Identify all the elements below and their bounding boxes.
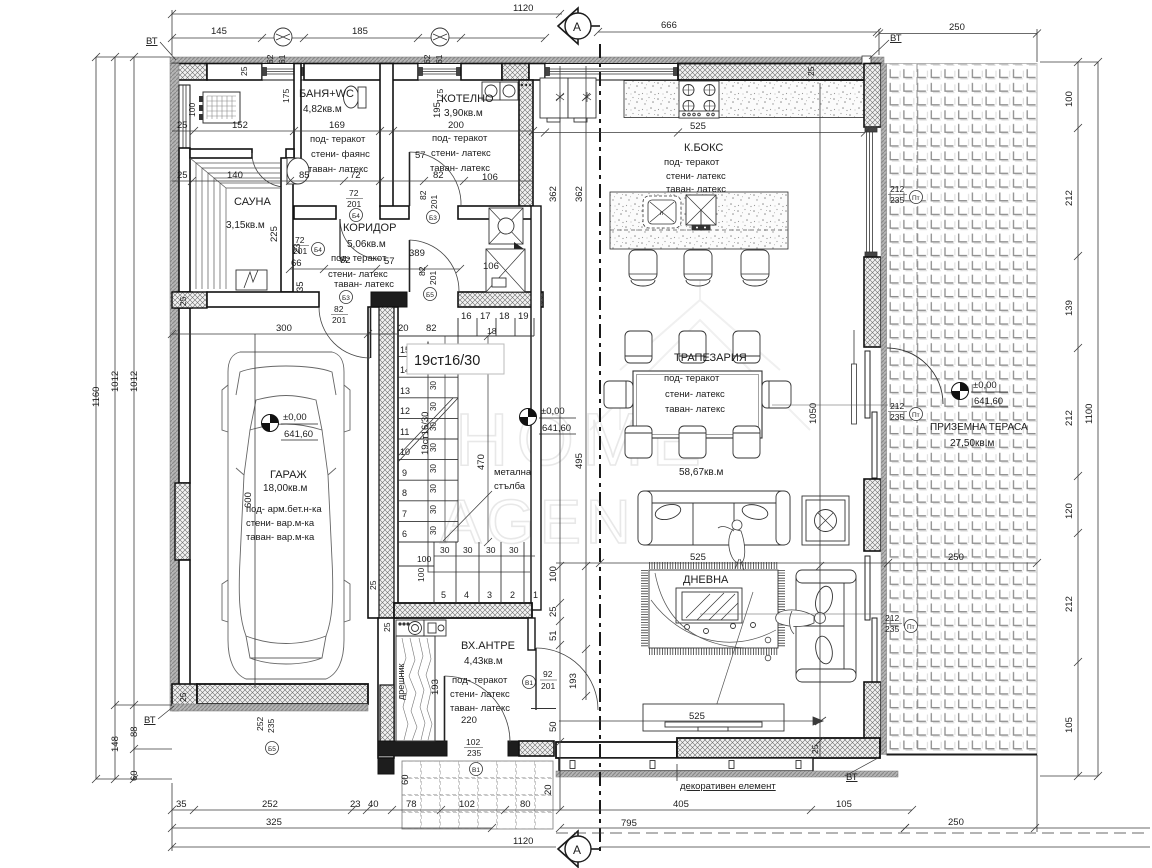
svg-text:дрешник: дрешник	[396, 664, 406, 700]
svg-text:82: 82	[418, 190, 428, 200]
entrance bottom-left wall	[378, 741, 447, 756]
svg-text:470: 470	[476, 454, 487, 470]
stair 30 labels	[429, 360, 438, 535]
garage right wall	[368, 307, 398, 618]
svg-text:30: 30	[429, 464, 438, 473]
svg-text:под- теракот: под- теракот	[664, 157, 720, 168]
svg-text:стени- латекс: стени- латекс	[666, 171, 726, 182]
section marker A top	[558, 8, 600, 44]
svg-text:12: 12	[400, 406, 410, 416]
svg-text:6: 6	[402, 529, 407, 539]
stair left wall hatch	[379, 307, 394, 618]
svg-text:5: 5	[441, 590, 446, 600]
svg-text:±0,00: ±0,00	[283, 412, 307, 423]
svg-text:148: 148	[110, 736, 121, 752]
svg-text:таван- латекс: таван- латекс	[450, 703, 510, 714]
svg-text:100: 100	[1064, 91, 1075, 107]
svg-text:225: 225	[269, 226, 280, 242]
sauna bottom wall	[172, 292, 207, 308]
svg-text:8: 8	[402, 488, 407, 498]
stair break diagonal	[398, 398, 458, 462]
svg-text:100: 100	[417, 554, 431, 564]
svg-text:235: 235	[266, 719, 276, 733]
stair upper flight 16-19	[458, 318, 534, 336]
svg-text:1050: 1050	[808, 403, 819, 424]
boiler right wall	[519, 80, 533, 212]
svg-text:2: 2	[510, 590, 515, 600]
interior vertical dims	[559, 66, 561, 810]
svg-text:25: 25	[368, 580, 378, 590]
svg-text:20: 20	[543, 784, 554, 795]
svg-text:220: 220	[461, 715, 477, 726]
svg-text:1120: 1120	[513, 3, 533, 14]
level mark garage	[262, 412, 319, 440]
rug decorative arcs	[655, 573, 760, 648]
svg-text:252: 252	[255, 717, 265, 731]
top dim row 1	[172, 13, 562, 15]
left wall window	[179, 85, 190, 148]
svg-text:A: A	[573, 843, 581, 857]
svg-text:82: 82	[334, 304, 344, 314]
svg-text:стени- фаянс: стени- фаянс	[311, 149, 370, 160]
svg-text:9: 9	[402, 468, 407, 478]
svg-text:50: 50	[548, 721, 559, 732]
svg-text:100: 100	[548, 566, 559, 582]
right dim col	[1077, 62, 1079, 776]
svg-text:72: 72	[349, 188, 359, 198]
svg-text:30: 30	[440, 545, 450, 555]
svg-text:62: 62	[422, 54, 432, 64]
dining chairs top row	[625, 331, 760, 363]
svg-text:201: 201	[293, 246, 307, 256]
svg-text:1100: 1100	[1084, 404, 1095, 424]
section marker A bottom	[558, 831, 600, 867]
svg-text:250: 250	[948, 552, 964, 563]
svg-text:метална: метална	[494, 467, 532, 478]
boiler door leaf and arc	[409, 152, 411, 206]
floor lamps	[765, 637, 771, 643]
svg-text:175: 175	[435, 89, 445, 103]
svg-text:3,90кв.м: 3,90кв.м	[444, 108, 483, 119]
svg-text:КОТЕЛНО: КОТЕЛНО	[441, 93, 494, 105]
top wall segment	[207, 64, 262, 81]
terrace door 1 sliding leaves	[865, 351, 877, 478]
svg-text:таван- латекс: таван- латекс	[666, 184, 726, 195]
svg-text:61: 61	[434, 54, 444, 64]
svg-text:60: 60	[400, 774, 411, 785]
svg-text:1012: 1012	[129, 371, 140, 392]
svg-text:17: 17	[480, 311, 491, 322]
wall bath/boiler	[380, 64, 393, 207]
dining chairs bottom row	[625, 426, 760, 458]
stair treads main flight	[398, 318, 458, 542]
svg-text:A: A	[573, 20, 581, 34]
svg-text:201: 201	[428, 271, 438, 285]
svg-text:72: 72	[295, 235, 305, 245]
svg-text:30: 30	[429, 381, 438, 390]
svg-text:105: 105	[836, 799, 852, 810]
svg-text:ВТ: ВТ	[846, 772, 858, 783]
bath bottom wall	[294, 206, 336, 219]
svg-text:В1: В1	[472, 767, 480, 774]
svg-text:100: 100	[416, 568, 426, 582]
svg-text:30: 30	[429, 505, 438, 514]
svg-text:102: 102	[459, 799, 475, 810]
stair step numbers 15-6	[400, 345, 410, 539]
dashed property line bottom	[556, 832, 1150, 834]
svg-text:таван- латекс: таван- латекс	[334, 279, 394, 290]
window W2 boiler	[418, 64, 461, 81]
svg-text:35: 35	[295, 281, 306, 292]
svg-text:1120: 1120	[513, 836, 533, 847]
svg-text:641,60: 641,60	[974, 396, 1003, 407]
top wall pier	[502, 64, 529, 81]
svg-text:19ст16/30: 19ст16/30	[420, 412, 431, 455]
svg-text:Пт: Пт	[912, 412, 920, 419]
island sink	[686, 195, 716, 230]
top right dim 250	[879, 33, 1037, 35]
svg-text:666: 666	[661, 20, 677, 31]
svg-text:5,06кв.м: 5,06кв.м	[347, 239, 386, 250]
svg-text:175: 175	[281, 89, 291, 103]
svg-text:13: 13	[400, 386, 410, 396]
sauna door arc	[252, 153, 286, 187]
tall cabinets	[540, 78, 596, 122]
svg-text:85: 85	[299, 170, 310, 181]
top dim row 2	[172, 37, 545, 39]
dining table	[633, 371, 762, 438]
svg-text:БАНЯ+WC: БАНЯ+WC	[299, 88, 354, 100]
svg-text:4: 4	[464, 590, 469, 600]
svg-text:18: 18	[487, 326, 497, 336]
left wall pier garage	[175, 483, 190, 560]
svg-text:таван- вар.м-ка: таван- вар.м-ка	[246, 532, 315, 543]
svg-text:300: 300	[276, 323, 292, 334]
svg-text:525: 525	[689, 711, 705, 722]
svg-text:Б5: Б5	[268, 746, 276, 753]
svg-text:201: 201	[347, 199, 361, 209]
svg-text:под- теракот: под- теракот	[664, 373, 720, 384]
svg-text:под- теракот: под- теракот	[310, 134, 366, 145]
ВТ marker box top right	[862, 56, 871, 64]
svg-text:Б4: Б4	[352, 213, 360, 220]
svg-text:57: 57	[415, 150, 426, 161]
svg-text:25: 25	[806, 66, 816, 76]
svg-text:82: 82	[417, 266, 427, 276]
right wall window	[865, 127, 877, 257]
svg-text:стени- вар.м-ка: стени- вар.м-ка	[246, 518, 315, 529]
svg-text:405: 405	[673, 799, 689, 810]
axis bubbles top	[274, 28, 292, 46]
kitchen island stipple	[610, 192, 788, 249]
svg-text:18,00кв.м: 18,00кв.м	[263, 483, 307, 494]
terrace tiles	[887, 64, 1038, 755]
sofa 2 vertical	[796, 570, 856, 682]
svg-text:n: n	[660, 211, 663, 217]
bar stools	[629, 250, 769, 286]
svg-text:389: 389	[409, 248, 425, 259]
terrace door 1 swing arc	[887, 348, 943, 404]
svg-text:362: 362	[574, 186, 585, 202]
living bottom wall left part	[556, 742, 677, 758]
top wall corner pier	[172, 64, 207, 81]
towel radiator	[199, 96, 203, 102]
wardrobe	[396, 636, 435, 741]
svg-text:525: 525	[690, 552, 706, 563]
bottom insulation strip	[556, 771, 898, 777]
svg-text:4,82кв.м: 4,82кв.м	[303, 104, 342, 115]
svg-text:САУНА: САУНА	[234, 196, 271, 208]
svg-text:120: 120	[1064, 503, 1075, 519]
svg-text:193: 193	[568, 673, 579, 689]
svg-text:19: 19	[518, 311, 529, 322]
svg-text:235: 235	[890, 412, 904, 422]
svg-text:ВТ: ВТ	[144, 715, 156, 726]
svg-text:106: 106	[482, 172, 498, 183]
stair lower flight 1-5	[398, 542, 524, 603]
left wall segment bath-sauna	[179, 148, 190, 292]
svg-text:ВТ: ВТ	[146, 36, 158, 47]
svg-text:58,67кв.м: 58,67кв.м	[679, 467, 723, 478]
svg-text:Пт: Пт	[912, 195, 920, 202]
top wall segment	[461, 64, 502, 81]
svg-text:25: 25	[177, 170, 188, 181]
rug	[649, 570, 778, 648]
right wall pier 2	[864, 257, 881, 347]
sauna heater	[236, 270, 267, 290]
svg-text:201: 201	[541, 681, 555, 691]
svg-text:235: 235	[890, 195, 904, 205]
svg-text:25: 25	[239, 66, 249, 76]
svg-text:105: 105	[1064, 717, 1075, 733]
svg-text:72: 72	[350, 170, 361, 181]
rug fringes	[649, 566, 778, 652]
label 19st16/30 box	[407, 344, 504, 374]
svg-text:88: 88	[129, 726, 140, 737]
svg-text:25: 25	[548, 606, 559, 617]
svg-text:11: 11	[400, 427, 409, 437]
svg-text:Пт: Пт	[907, 624, 915, 631]
svg-text:140: 140	[227, 170, 243, 181]
right wall pier bottom	[864, 682, 881, 752]
stair dims lower	[434, 555, 535, 557]
stair dim line 470	[445, 332, 492, 546]
svg-text:212: 212	[890, 184, 904, 194]
svg-text:под- теракот: под- теракот	[432, 133, 488, 144]
svg-text:20: 20	[398, 323, 409, 334]
svg-text:4,43кв.м: 4,43кв.м	[464, 656, 503, 667]
svg-text:±0,00: ±0,00	[541, 406, 565, 417]
svg-text:66: 66	[291, 258, 302, 269]
svg-text:252: 252	[262, 799, 278, 810]
svg-text:ВТ: ВТ	[890, 33, 902, 44]
svg-text:40: 40	[368, 799, 379, 810]
svg-text:78: 78	[406, 799, 417, 810]
svg-text:200: 200	[448, 120, 464, 131]
top wall insulation strip	[170, 57, 884, 64]
corridor small dim row	[290, 268, 460, 270]
entrance porch corner block	[378, 756, 394, 774]
level mark terrace	[952, 380, 1009, 407]
svg-text:100: 100	[187, 103, 197, 117]
entrance right wall	[528, 618, 535, 650]
svg-text:25: 25	[177, 120, 188, 131]
svg-text:30: 30	[429, 484, 438, 493]
svg-text:201: 201	[332, 315, 346, 325]
entrance bottom-right block	[508, 741, 519, 756]
svg-text:212: 212	[885, 613, 899, 623]
svg-text:525: 525	[690, 121, 706, 132]
svg-text:62: 62	[265, 54, 275, 64]
svg-text:Б4: Б4	[314, 247, 322, 254]
svg-text:КОРИДОР: КОРИДОР	[343, 222, 396, 234]
svg-text:Б3: Б3	[429, 215, 437, 222]
svg-text:195: 195	[432, 102, 443, 118]
svg-text:495: 495	[574, 453, 585, 469]
door labels with circles	[255, 184, 923, 776]
svg-text:ГАРАЖ: ГАРАЖ	[270, 469, 307, 481]
svg-text:Б5: Б5	[426, 292, 434, 299]
svg-text:3: 3	[487, 590, 492, 600]
svg-text:795: 795	[621, 818, 637, 829]
svg-text:212: 212	[1064, 596, 1075, 612]
entrance left wall	[378, 618, 394, 758]
TV cabinet	[643, 704, 784, 731]
svg-text:212: 212	[1064, 190, 1075, 206]
svg-text:под- теракот: под- теракот	[452, 675, 508, 686]
svg-text:212: 212	[1064, 410, 1075, 426]
svg-text:30: 30	[463, 545, 473, 555]
bath door arc	[340, 219, 380, 259]
dining side chairs	[604, 381, 791, 408]
svg-text:таван- латекс: таван- латекс	[665, 404, 725, 415]
right wall pier 3	[864, 479, 881, 551]
svg-text:57: 57	[384, 256, 395, 267]
svg-text:25: 25	[810, 744, 820, 754]
right wall pier top	[864, 64, 881, 128]
garage door leaf and arc	[370, 307, 372, 358]
radiator living wall	[852, 364, 857, 424]
entrance door leaf and arc	[444, 676, 446, 742]
stair bottom wall	[394, 603, 532, 618]
svg-text:30: 30	[429, 402, 438, 411]
svg-text:61: 61	[277, 54, 287, 64]
toilet	[344, 86, 367, 108]
wall bath/shower	[294, 64, 301, 161]
person on sofa 1	[718, 520, 745, 570]
svg-text:под- арм.бет.н-ка: под- арм.бет.н-ка	[246, 504, 322, 515]
svg-text:169: 169	[329, 120, 345, 131]
svg-text:30: 30	[429, 526, 438, 535]
svg-text:декоративен елемент: декоративен елемент	[680, 781, 776, 792]
watermark agency logo	[440, 280, 810, 557]
svg-text:25: 25	[178, 692, 188, 702]
svg-text:185: 185	[352, 26, 368, 37]
kitchen window W3	[545, 64, 678, 81]
interior horizontal dims	[172, 130, 533, 132]
top wall segment	[304, 64, 418, 81]
person on sofa 2	[776, 610, 826, 634]
svg-text:82: 82	[433, 170, 444, 181]
coffee table	[676, 588, 756, 634]
svg-text:7: 7	[402, 509, 407, 519]
svg-text:25: 25	[382, 622, 392, 632]
left wall pier bottom	[172, 684, 197, 705]
shower tray	[203, 92, 240, 123]
svg-text:стени- латекс: стени- латекс	[431, 148, 491, 159]
svg-text:ПРИЗЕМНА ТЕРАСА: ПРИЗЕМНА ТЕРАСА	[930, 422, 1028, 433]
svg-text:16: 16	[461, 311, 472, 322]
right wall outer gray strip	[881, 64, 887, 755]
stove	[679, 81, 719, 118]
porch tiles entrance	[402, 761, 553, 829]
stair walk line with arrow	[424, 342, 530, 572]
left wall insulation strip	[170, 64, 179, 712]
svg-text:ТРАПЕЗАРИЯ: ТРАПЕЗАРИЯ	[674, 352, 747, 364]
left wall pier sauna	[175, 292, 192, 308]
svg-text:193: 193	[430, 679, 441, 695]
svg-text:Б3: Б3	[342, 295, 350, 302]
level mark stairs	[520, 406, 577, 434]
svg-text:641,60: 641,60	[542, 423, 571, 434]
svg-text:106: 106	[483, 261, 499, 272]
svg-text:стени- латекс: стени- латекс	[665, 389, 725, 400]
svg-text:92: 92	[543, 669, 553, 679]
kitchen counter stipple	[624, 81, 865, 118]
decorative band	[559, 758, 813, 771]
svg-text:362: 362	[548, 186, 559, 202]
svg-text:30: 30	[509, 545, 519, 555]
svg-text:82: 82	[340, 255, 351, 266]
svg-text:ДНЕВНА: ДНЕВНА	[683, 574, 729, 586]
washbasin	[287, 158, 309, 184]
svg-text:В1: В1	[525, 680, 533, 687]
svg-text:±0,00: ±0,00	[973, 380, 997, 391]
svg-text:1160: 1160	[91, 387, 102, 407]
svg-text:82: 82	[426, 323, 437, 334]
terrace door 2 sliding leaves	[865, 556, 877, 682]
sofa 1	[638, 491, 790, 545]
svg-text:641,60: 641,60	[284, 429, 313, 440]
svg-text:30: 30	[486, 545, 496, 555]
svg-text:51: 51	[548, 630, 559, 641]
svg-text:25: 25	[178, 296, 188, 306]
svg-text:1: 1	[533, 590, 538, 600]
side table square	[802, 496, 849, 545]
left wall segment garage lower	[179, 560, 190, 686]
svg-text:18: 18	[499, 311, 510, 322]
svg-text:250: 250	[948, 817, 964, 828]
living bottom wall hatched	[677, 738, 880, 758]
svg-text:235: 235	[885, 624, 899, 634]
svg-text:ВХ.АНТРЕ: ВХ.АНТРЕ	[461, 640, 515, 652]
svg-text:201: 201	[429, 195, 439, 209]
svg-text:152: 152	[232, 120, 248, 131]
island cooktop	[643, 196, 681, 228]
svg-text:212: 212	[890, 401, 904, 411]
svg-text:19ст16/30: 19ст16/30	[414, 353, 480, 369]
living door leaf and arc	[535, 648, 537, 710]
svg-text:стълба: стълба	[494, 481, 526, 492]
top wall hatched band right	[678, 64, 880, 81]
sauna top wall	[190, 149, 252, 158]
shower tray corridor niche	[489, 208, 523, 244]
svg-text:стени- латекс: стени- латекс	[450, 689, 510, 700]
svg-text:К.БОКС: К.БОКС	[684, 142, 723, 154]
svg-text:235: 235	[467, 748, 481, 758]
svg-text:102: 102	[466, 737, 480, 747]
left dim col	[95, 57, 97, 779]
